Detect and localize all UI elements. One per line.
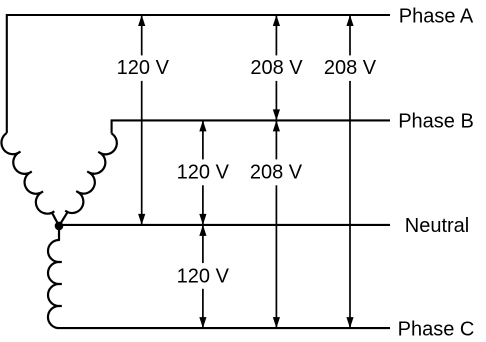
inductor winding B (right leg of wye) bbox=[59, 134, 117, 226]
arrowhead down at Neutral x202 bbox=[199, 214, 206, 225]
wire arrow shaft 208V A-B and B-C bbox=[275, 15, 277, 328]
svg-text:208 V: 208 V bbox=[250, 57, 303, 79]
svg-text:120 V: 120 V bbox=[177, 265, 230, 287]
inductor winding C (vertical leg of wye) bbox=[48, 229, 62, 328]
svg-text:Phase B: Phase B bbox=[398, 111, 474, 133]
arrowhead up below Neutral x202 bbox=[199, 225, 206, 236]
arrowhead up at Phase A x141 bbox=[138, 15, 145, 26]
wire Phase C bus bbox=[59, 327, 390, 329]
label background row 1 bbox=[114, 55, 170, 81]
label background row 3 bbox=[175, 263, 231, 289]
svg-text:120 V: 120 V bbox=[117, 57, 170, 79]
svg-text:Neutral: Neutral bbox=[405, 215, 469, 237]
svg-text:208 V: 208 V bbox=[324, 57, 377, 79]
wire Phase A bus with left drop bbox=[7, 15, 390, 133]
arrowhead up at Phase A x276 bbox=[273, 15, 280, 26]
arrowhead down at Phase B x276 bbox=[273, 109, 280, 120]
arrowhead up at Phase A x350 bbox=[346, 15, 353, 26]
wire Neutral bus bbox=[59, 224, 390, 226]
svg-text:Phase A: Phase A bbox=[399, 5, 474, 27]
label background row 2 bbox=[175, 159, 231, 185]
inductor winding A (left leg of wye) bbox=[1, 133, 59, 226]
arrowhead up below Phase B x276 bbox=[273, 120, 280, 131]
arrowhead down at Phase C x202 bbox=[199, 317, 206, 328]
arrowhead up below Phase B x202 bbox=[199, 120, 206, 131]
svg-text:Phase C: Phase C bbox=[398, 319, 475, 341]
arrowhead down at Phase C x350 bbox=[346, 317, 353, 328]
wire Phase B bus with left drop bbox=[112, 120, 390, 133]
node wye center junction dot bbox=[55, 222, 64, 231]
svg-text:120 V: 120 V bbox=[177, 161, 230, 183]
wire arrow shaft 120V A-N bbox=[141, 15, 143, 225]
arrowhead down at Neutral x141 bbox=[138, 214, 145, 225]
wire arrow shaft 208V A-C bbox=[349, 15, 351, 328]
svg-text:208 V: 208 V bbox=[250, 161, 303, 183]
wire arrow shaft 120V B-N and N-C bbox=[202, 120, 204, 328]
arrowhead down at Phase C x276 bbox=[273, 317, 280, 328]
